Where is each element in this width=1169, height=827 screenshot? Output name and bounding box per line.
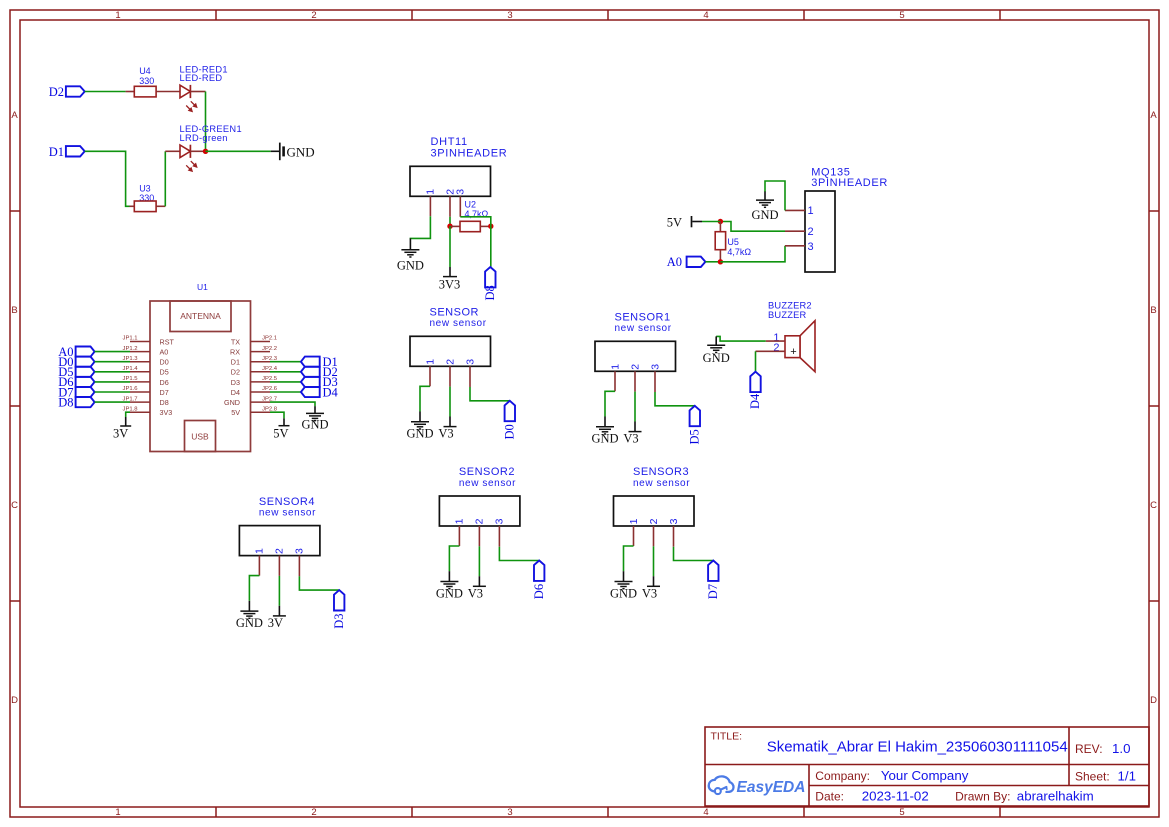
svg-text:3V: 3V [113,426,128,440]
connector DHT11 label [431,136,508,159]
svg-text:LRD-green: LRD-green [180,133,228,143]
svg-text:3V3: 3V3 [439,277,461,291]
net port D0 (U1 left) [58,355,94,369]
svg-text:D3: D3 [332,614,346,629]
svg-text:Sheet:: Sheet: [1075,769,1110,783]
net port D5 (SENSOR1) [688,406,702,445]
net port D2 (U1 right) [301,365,338,379]
svg-text:U4: U4 [139,66,151,76]
svg-text:GND: GND [406,427,433,441]
svg-text:3PINHEADER: 3PINHEADER [431,147,508,159]
svg-text:3: 3 [455,189,467,195]
svg-text:5V: 5V [273,426,288,440]
svg-text:SENSOR3: SENSOR3 [633,466,689,478]
svg-text:GND: GND [591,432,618,446]
svg-text:1: 1 [808,205,814,217]
wire SENSOR pin2 to V3 [449,387,451,417]
svg-text:D2: D2 [231,368,240,377]
svg-text:new sensor: new sensor [459,478,516,489]
svg-text:A: A [11,110,18,121]
ground GND (SENSOR) [406,412,433,441]
junction at LED node [203,149,208,154]
power flag 3V (U1) [113,417,131,440]
U1 right pin stubs [251,342,271,413]
sensor SENSOR2 pin 2 lead [478,526,480,546]
connector DHT11 body [410,166,491,196]
net port D0 (SENSOR) [503,401,517,440]
junction A0 node [718,259,723,264]
net port D6 (SENSOR2) [532,561,546,600]
svg-text:JP1.8: JP1.8 [123,406,139,412]
net port D5 (U1 left) [58,365,94,379]
net port D8 (U1 left) [58,395,94,409]
svg-text:D6: D6 [160,378,169,387]
ground GND (SENSOR4) [236,601,263,630]
buzzer BUZZER2 body [785,321,815,372]
svg-text:4,7kΩ: 4,7kΩ [727,247,751,257]
svg-text:1: 1 [425,189,437,195]
svg-text:SENSOR: SENSOR [430,307,479,319]
svg-text:3: 3 [507,10,512,21]
svg-text:USB: USB [191,432,209,442]
svg-text:1: 1 [424,359,436,365]
sensor SENSOR2 pin 3 lead [498,526,500,547]
U1 right pin numbers JP2.1-JP2.8 [262,336,278,413]
net port D8 (DHT11) [483,267,497,301]
ruler numbers top [115,10,904,21]
sensor SENSOR3 pin 1 lead [633,526,635,546]
BUZZER2 pin 2 lead [756,350,786,352]
svg-text:Skematik_Abrar El Hakim_235060: Skematik_Abrar El Hakim_235060301111054 [767,738,1068,755]
svg-text:3: 3 [294,548,306,554]
svg-text:V3: V3 [438,427,453,441]
sensor SENSOR pin numbers [424,359,476,365]
wire MQ135 pin2 to 5V [720,222,785,232]
sensor SENSOR pin 2 lead [449,366,451,386]
ruler ticks top [216,10,1000,20]
buzzer BUZZER2 label [768,301,812,320]
svg-text:V3: V3 [623,432,638,446]
svg-text:A0: A0 [667,255,682,269]
wire SENSOR2 pin2 to V3 [478,546,480,576]
wire LED-GREEN1 cathode [190,150,205,152]
net port D7 (SENSOR3) [706,561,720,600]
wire U1 to D2 [270,371,301,373]
ground GND (U1) [301,406,328,431]
wire SENSOR4 pin2 to 3V [278,576,280,606]
net port D7 (U1 left) [58,385,94,399]
EasyEDA logo [709,776,806,796]
wire MQ135 pin1 to GND [765,181,785,210]
svg-text:new sensor: new sensor [259,507,316,518]
sensor SENSOR3 body [614,496,695,526]
svg-text:abrarelhakim: abrarelhakim [1017,789,1094,804]
svg-text:D0: D0 [160,358,169,367]
wire D5 to U1 [95,371,130,373]
net port D3 (SENSOR4) [332,590,346,629]
wire SENSOR4 pin3 to D3 [299,576,339,590]
title block Sheet [1075,768,1136,783]
ground GND (SENSOR2) [436,571,463,600]
svg-text:D6: D6 [532,584,546,599]
power flag 3V3 (DHT11) [439,267,461,291]
svg-text:U5: U5 [727,237,739,247]
wire D8 to U1 [95,401,130,403]
ruler letters left [11,110,18,706]
wire D1 to U3 [85,151,130,206]
wire DHT11 pin3 over resistor [460,217,491,226]
sensor SENSOR3 pin 2 lead [653,526,655,546]
svg-text:3V3: 3V3 [160,408,173,417]
svg-text:new sensor: new sensor [615,323,672,334]
svg-text:1: 1 [115,10,120,21]
svg-text:2: 2 [629,364,641,370]
U1 left pin numbers JP1.1-JP1.8 [123,336,139,413]
svg-text:2: 2 [444,359,456,365]
svg-text:3: 3 [507,807,512,818]
wire SENSOR3 pin3 to D7 [674,547,714,561]
ground GND (MQ135) [751,192,778,222]
svg-text:V3: V3 [642,586,657,600]
svg-text:GND: GND [610,586,637,600]
wire U1 to D3 [270,381,301,383]
svg-text:2: 2 [648,518,660,524]
sensor SENSOR1 pin numbers [609,364,661,370]
U1 ANTENNA box [170,301,231,332]
svg-text:GND: GND [236,616,263,630]
svg-text:3V: 3V [268,616,283,630]
net port D2 [49,85,85,99]
sensor SENSOR3 pin numbers [628,518,680,524]
wire SENSOR1 pin3 to D5 [655,392,695,406]
wire SENSOR pin1 to GND [420,386,430,411]
connector MQ135 body [805,191,835,272]
wire D0 to U1 [95,361,130,363]
svg-text:GND: GND [301,418,328,432]
svg-text:1: 1 [628,518,640,524]
svg-text:1.0: 1.0 [1112,741,1131,756]
module U1 body [150,301,251,452]
power flag 3V (SENSOR4) [268,606,286,630]
svg-text:RX: RX [230,348,240,357]
svg-text:SENSOR2: SENSOR2 [459,466,515,478]
sensor SENSOR1 pin 2 lead [634,371,636,391]
DHT11 pin 1 lead [429,196,431,216]
svg-text:new sensor: new sensor [430,318,487,329]
svg-text:U1: U1 [197,282,208,292]
sensor SENSOR4 pin 2 lead [278,556,280,576]
title block Date row [815,789,1093,804]
svg-text:1: 1 [454,518,466,524]
sensor SENSOR1 pin 3 lead [654,371,656,392]
wire SENSOR pin3 to D0 [470,387,510,401]
sensor SENSOR4 body [239,526,320,556]
wire SENSOR1 pin2 to V3 [634,392,636,422]
svg-text:2: 2 [773,342,779,354]
junction U2 right [488,224,493,229]
DHT11 pin numbers [425,189,467,195]
svg-text:1/1: 1/1 [1118,768,1137,783]
svg-text:JP2.2: JP2.2 [262,346,277,352]
ground GND (LED) [271,143,315,161]
svg-text:B: B [11,305,17,316]
svg-text:D7: D7 [706,584,720,599]
svg-text:D4: D4 [231,388,240,397]
junction 5V node [718,219,723,224]
svg-text:1: 1 [254,548,266,554]
svg-text:D2: D2 [49,85,64,99]
svg-text:GND: GND [751,208,778,222]
svg-text:+: + [790,346,796,358]
svg-text:A: A [1150,110,1157,121]
svg-text:LED-RED: LED-RED [180,73,223,83]
ruler ticks left [10,211,20,601]
svg-text:D7: D7 [160,388,169,397]
svg-text:3: 3 [494,518,506,524]
sensor SENSOR3 pin 3 lead [673,526,675,547]
wire SENSOR3 pin1 to GND [624,546,634,571]
svg-text:3PINHEADER: 3PINHEADER [811,177,888,189]
wire node to MQ135 pin3 [720,246,785,262]
title block frame [705,727,1149,806]
svg-text:1: 1 [115,807,120,818]
wire BUZZER2 pin2 to D4 [755,351,757,371]
wire U1 5V pin to 5V flag [270,412,284,418]
sensor SENSOR2 pin numbers [454,518,506,524]
resistor U3 value 330 [130,184,166,212]
svg-text:GND: GND [397,258,424,272]
wire D7 to U1 [95,391,130,393]
svg-text:5: 5 [899,807,904,818]
svg-text:D: D [1150,695,1157,706]
svg-text:D4: D4 [323,385,339,399]
power flag V3 (SENSOR3) [642,576,660,600]
svg-text:A0: A0 [160,348,169,357]
net port D1 [49,145,85,159]
wire SENSOR2 pin1 to GND [449,546,459,571]
sensor SENSOR4 pin 3 lead [298,556,300,577]
wire LED-RED1 cathode [190,91,205,93]
wire node to GND flag [206,150,271,152]
svg-text:330: 330 [139,76,154,86]
svg-text:D1: D1 [49,145,64,159]
title block REV [1075,741,1131,756]
ground GND (SENSOR1) [591,417,618,446]
sensor SENSOR4 pin 1 lead [258,556,260,576]
svg-text:GND: GND [703,351,730,365]
DHT11 pin 3 lead [459,196,461,217]
svg-text:D5: D5 [160,368,169,377]
power flag V3 (SENSOR) [438,417,456,441]
net port A0 (MQ135) [667,255,706,269]
MQ135 pin numbers [808,205,814,253]
svg-text:Company:: Company: [815,769,870,783]
svg-text:3: 3 [464,359,476,365]
wire D2 to U4 [85,91,126,93]
U1 left pin names [160,337,175,417]
svg-text:2: 2 [274,548,286,554]
power flag V3 (SENSOR2) [468,576,486,600]
svg-text:D3: D3 [231,378,240,387]
svg-text:TITLE:: TITLE: [711,731,743,743]
svg-text:2: 2 [808,226,814,238]
wire U1 to D4 [270,391,301,393]
ground GND (DHT11) [397,238,424,272]
resistor U4 value 330 [126,66,180,97]
wire U1 3V3 pin to 3V flag [126,412,130,417]
sensor SENSOR1 pin 1 lead [614,371,616,391]
svg-text:C: C [1150,500,1157,511]
svg-text:GND: GND [436,586,463,600]
sensor SENSOR1 body [595,341,676,371]
power flag 5V (U1) [273,418,289,440]
wire D6 to U1 [95,381,130,383]
svg-text:Date:: Date: [815,790,844,804]
sensor SENSOR pin 3 lead [469,366,471,387]
svg-text:5V: 5V [667,216,682,230]
wire SENSOR2 pin3 to D6 [499,547,539,561]
wire A0 to node [705,261,720,263]
sensor SENSOR4 pin numbers [254,548,306,554]
ruler ticks bottom [216,807,1000,817]
BUZZER2 pin numbers [773,332,779,354]
ruler letters right [1150,110,1157,706]
wire U3 up to LED-GREEN1 [164,151,166,206]
net port D4 (U1 right) [301,385,339,399]
svg-text:D8: D8 [160,398,169,407]
svg-text:B: B [1150,305,1156,316]
wire SENSOR3 pin2 to V3 [653,546,655,576]
U1 right pin names [224,337,240,417]
wire node to 5V flag [702,221,720,223]
svg-text:TX: TX [231,337,240,346]
net port D4 (BUZZER2) [748,372,762,409]
DHT11 pin 2 lead [449,196,451,217]
sensor SENSOR2 body [439,496,520,526]
wire SENSOR1 pin1 to GND [605,391,615,416]
svg-text:REV:: REV: [1075,742,1103,756]
wire A0 to U1 [95,351,130,353]
MQ135 pin 3 lead [785,245,805,247]
svg-text:V3: V3 [468,586,483,600]
wire LED-RED1 down to node [205,92,207,152]
svg-text:SENSOR4: SENSOR4 [259,496,315,508]
ground GND (SENSOR3) [610,571,637,600]
svg-text:2: 2 [311,10,316,21]
wire node to D8 port [490,226,492,267]
net port D6 (U1 left) [58,375,94,389]
LED LED-GREEN1 [180,124,242,171]
svg-text:BUZZER: BUZZER [768,310,806,320]
svg-text:4: 4 [703,807,708,818]
ground GND (BUZZER2) [703,336,730,364]
wire DHT11 pin2 to node [449,217,451,226]
net port D1 (U1 right) [301,355,338,369]
svg-text:ANTENNA: ANTENNA [180,311,221,321]
svg-text:JP1.1: JP1.1 [123,336,138,342]
net port A0 (U1 left) [58,345,94,359]
wire U1 to D1 [270,361,301,363]
svg-text:4: 4 [703,10,708,21]
svg-text:3: 3 [808,241,814,253]
svg-text:D4: D4 [748,393,762,409]
ruler numbers bottom [115,807,904,818]
svg-text:D8: D8 [58,395,73,409]
svg-text:EasyEDA: EasyEDA [737,779,806,796]
svg-text:Your Company: Your Company [881,768,969,783]
svg-text:2023-11-02: 2023-11-02 [862,789,929,804]
wire DHT11 pin2 to 3V3 [449,226,451,267]
wire BUZZER2 pin1 to GND [716,336,766,341]
junction DHT11 pin2 [447,224,452,229]
BUZZER2 pin 1 lead [766,340,785,342]
svg-text:D1: D1 [231,358,240,367]
wire to LED-GREEN1 anode [165,150,180,152]
MQ135 pin 2 lead [785,230,805,232]
U1 left pin stubs [130,342,150,413]
power flag 5V (MQ135) [667,216,702,230]
ruler ticks right [1149,211,1159,601]
sensor SENSOR body [410,336,491,366]
wire DHT11 pin1 to GND [410,216,430,239]
power flag V3 (SENSOR1) [623,422,641,446]
svg-text:Drawn By:: Drawn By: [955,790,1010,804]
svg-text:D8: D8 [483,285,497,300]
svg-text:3: 3 [649,364,661,370]
svg-text:2: 2 [474,518,486,524]
LED LED-RED1 [180,64,228,111]
svg-text:JP2.1: JP2.1 [262,336,277,342]
resistor U5 value 4,7kΩ [715,222,751,262]
U1 USB box [185,421,216,452]
svg-text:5V: 5V [231,408,240,417]
title block Company [815,768,968,783]
svg-text:D0: D0 [503,424,517,439]
svg-text:5: 5 [899,10,904,21]
sensor SENSOR pin 1 lead [429,366,431,386]
svg-text:new sensor: new sensor [633,478,690,489]
svg-text:C: C [11,500,18,511]
sensor SENSOR2 pin 1 lead [458,526,460,546]
connector MQ135 label [811,166,888,189]
svg-text:D5: D5 [688,429,702,444]
svg-text:U2: U2 [465,199,477,209]
svg-text:SENSOR1: SENSOR1 [615,312,671,324]
resistor U2 value 4,7kΩ [450,199,491,231]
wire U1 GND pin to GND [270,402,315,406]
MQ135 pin 1 lead [785,209,805,211]
svg-text:RST: RST [160,337,175,346]
svg-text:GND: GND [287,145,315,160]
wire SENSOR4 pin1 to GND [249,576,259,601]
net port D3 (U1 right) [301,375,338,389]
svg-text:D: D [11,695,18,706]
svg-text:2: 2 [311,807,316,818]
svg-text:GND: GND [224,398,240,407]
svg-text:1: 1 [609,364,621,370]
svg-text:3: 3 [668,518,680,524]
